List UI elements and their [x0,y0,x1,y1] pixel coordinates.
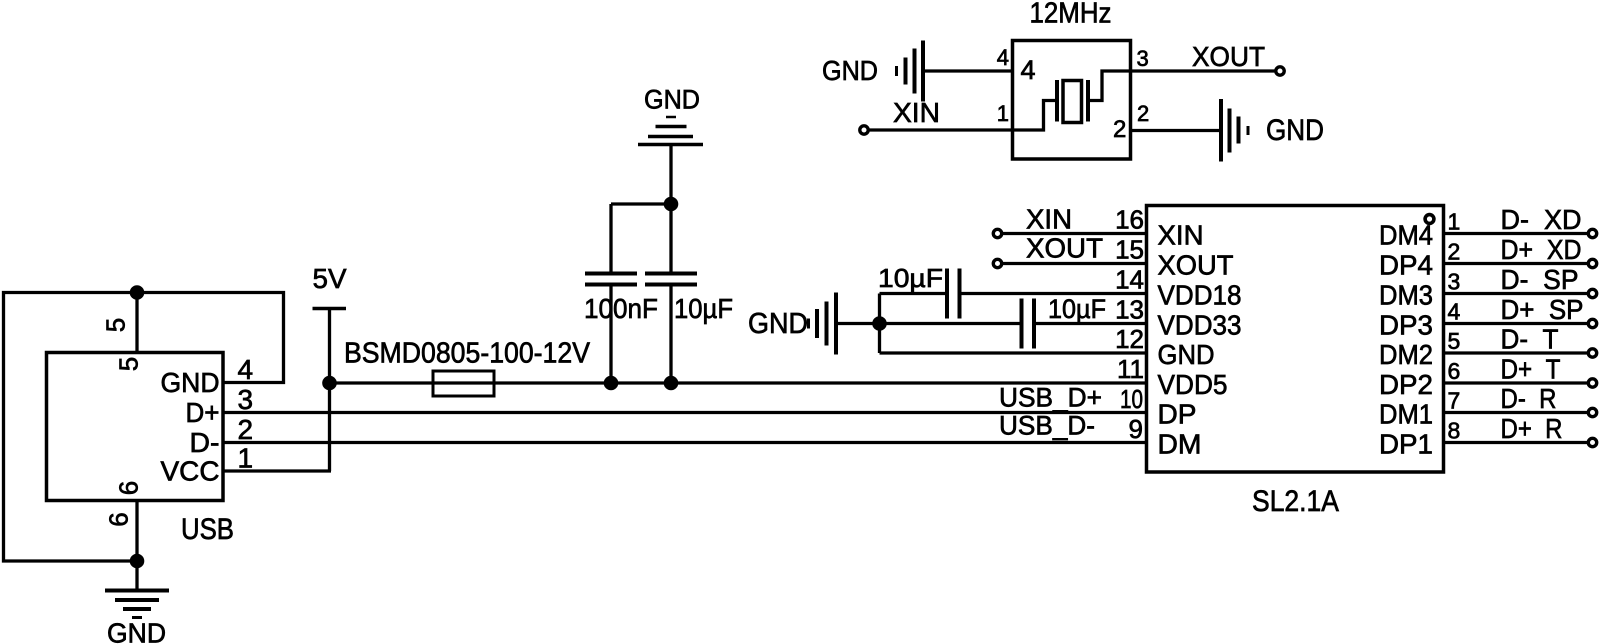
wire cap bus vertical [878,294,881,354]
svg-text:DP4: DP4 [1379,250,1433,281]
svg-text:VDD5: VDD5 [1158,369,1228,400]
svg-text:DP3: DP3 [1379,310,1433,341]
wire crystal pin2 to ground [1131,129,1220,132]
wire VCC riser [328,383,331,471]
svg-text:1: 1 [238,443,254,474]
crystal internal wire pin3 side [1090,71,1131,101]
crystal Y1 body box [1013,41,1131,160]
wire 5V stem [328,309,331,384]
wire crystal pin4 to ground [925,69,1013,72]
ground symbol below USB [105,589,169,593]
svg-text:VDD33: VDD33 [1158,310,1242,341]
fuse F1 body [433,371,494,396]
wire D-_XD net [1444,232,1589,235]
svg-text:D+_XD: D+_XD [1501,234,1582,265]
terminal D+_T [1588,379,1596,387]
svg-text:GND: GND [107,618,166,644]
svg-text:2: 2 [1448,239,1461,265]
terminal D-_XD [1588,229,1596,237]
svg-text:XOUT: XOUT [1158,250,1234,281]
terminal D-_R [1588,408,1596,416]
terminal D+_SP [1588,319,1596,327]
terminal XOUT (IC pin15) [993,259,1001,267]
IC U1 body [1147,206,1444,473]
crystal right plate [1086,80,1090,122]
wire D+_XD net [1444,262,1589,265]
svg-text:10: 10 [1120,384,1143,414]
svg-text:7: 7 [1448,388,1461,414]
svg-text:USB: USB [181,513,234,546]
junction pin5 / top rail [130,285,145,300]
svg-text:GND: GND [1266,114,1324,147]
wire pin6 down [135,501,138,562]
svg-text:DM: DM [1158,429,1202,460]
svg-text:XIN: XIN [893,97,940,128]
svg-text:D+_R: D+_R [1501,413,1563,444]
junction 5V / VCC / VDD5 [322,376,337,391]
svg-text:2: 2 [1137,101,1149,126]
svg-text:VDD18: VDD18 [1158,280,1242,311]
wire D-_T net [1444,351,1589,354]
svg-text:10µF: 10µF [878,263,943,293]
svg-text:1: 1 [997,101,1009,126]
svg-text:DM2: DM2 [1379,339,1433,370]
crystal internal wire pin1 side [1013,101,1056,131]
wire VCC (pin1 to 5V riser) [223,469,331,472]
svg-text:DM4: DM4 [1379,220,1433,251]
capacitor C2 lead top [669,204,672,272]
svg-text:5: 5 [101,318,131,332]
svg-text:4: 4 [238,354,254,385]
wire GND pin12 [880,351,1147,354]
junction cap branch [664,197,679,212]
svg-text:1: 1 [1448,209,1461,235]
svg-text:10µF: 10µF [1048,294,1106,324]
wire VDD33 right segment [1036,322,1147,325]
svg-text:5: 5 [1448,328,1461,354]
capacitor C3 10uF plates [945,269,949,319]
svg-text:2: 2 [1113,116,1126,143]
svg-text:DP: DP [1158,399,1197,430]
wire GND loop (pin4 up over to left down to bottom) [4,293,284,562]
wire crystal pin3 XOUT [1131,69,1277,72]
svg-text:GND: GND [644,85,700,115]
svg-text:8: 8 [1448,418,1461,444]
svg-text:4: 4 [1021,55,1036,85]
svg-text:2: 2 [238,414,254,445]
ground symbol top (inverted) [666,116,676,119]
svg-text:DM3: DM3 [1379,280,1433,311]
svg-text:DM1: DM1 [1379,399,1433,430]
wire USB D+ net (pin3 to IC DP) [223,411,1147,414]
svg-text:D-_SP: D-_SP [1501,264,1579,295]
svg-text:GND: GND [1158,339,1215,370]
wire VDD18 left segment [880,292,946,295]
svg-text:XOUT: XOUT [1026,233,1103,264]
svg-text:D+_SP: D+_SP [1501,294,1584,325]
capacitor C2 lead bottom [669,287,672,384]
svg-text:DP2: DP2 [1379,369,1433,400]
svg-text:BSMD0805-100-12V: BSMD0805-100-12V [344,338,591,370]
svg-text:D-: D- [190,427,220,458]
wire USB D- net (pin2 to IC DM) [223,441,1147,444]
svg-text:6: 6 [104,512,134,526]
wire D-_SP net [1444,292,1589,295]
ground symbol crystal right (rotated) [1219,99,1223,162]
junction cap bus / gnd [872,316,887,331]
svg-text:9: 9 [1129,414,1143,444]
svg-text:VCC: VCC [161,456,220,487]
wire pin5 to top rail [135,291,138,353]
wire VDD5 rail [330,381,1147,384]
IC pin1 marker circle [1425,215,1434,224]
svg-text:XIN: XIN [1158,220,1204,251]
svg-text:D+_T: D+_T [1501,354,1561,385]
svg-text:D-_T: D-_T [1501,324,1559,355]
capacitor C1 100nF plates [585,272,637,276]
svg-text:5V: 5V [313,263,347,294]
terminal XIN (IC pin16) [993,229,1001,237]
crystal left plate [1055,80,1059,122]
svg-text:D+: D+ [186,397,220,428]
svg-text:11: 11 [1117,354,1144,384]
svg-text:SL2.1A: SL2.1A [1252,485,1339,518]
svg-text:14: 14 [1115,265,1144,295]
wire D+_SP net [1444,322,1589,325]
ground symbol IC (rotated) [834,293,838,355]
svg-text:4: 4 [997,45,1009,70]
svg-text:XOUT: XOUT [1192,41,1265,72]
junction C1 / VDD5 [604,376,619,391]
wire D-_R net [1444,411,1589,414]
svg-text:3: 3 [1137,46,1149,71]
svg-text:6: 6 [1448,358,1461,384]
USB connector J1 body [47,353,224,501]
terminal D+_R [1588,438,1596,446]
svg-text:12: 12 [1115,324,1144,354]
wire to ground [135,561,138,589]
terminal D-_SP [1588,289,1596,297]
terminal XOUT (crystal) [1276,67,1284,75]
wire D+_R net [1444,441,1589,444]
wire VDD33 left segment [880,322,1021,325]
svg-text:6: 6 [114,481,144,495]
svg-text:5: 5 [114,357,144,371]
wire D+_T net [1444,381,1589,384]
svg-text:XIN: XIN [1026,204,1072,235]
svg-text:3: 3 [1448,269,1461,295]
capacitor C2 10uF plates [645,272,697,276]
wire branch to C1 [611,202,671,205]
wire XOUT net [1002,262,1147,265]
svg-text:USB_D+: USB_D+ [999,383,1102,413]
junction C2 / VDD5 [664,376,679,391]
capacitor C4 10uF plates [1020,299,1024,349]
wire XIN net [1002,232,1147,235]
terminal XIN (crystal) [860,126,868,134]
wire gnd to bus [838,322,880,325]
capacitor C1 lead top [609,204,612,272]
svg-text:DP1: DP1 [1379,429,1433,460]
wire XIN to crystal pin1 [868,128,1013,131]
terminal D-_T [1588,349,1596,357]
wire top gnd stem [669,146,672,204]
svg-text:16: 16 [1115,205,1144,235]
svg-text:4: 4 [1448,299,1461,325]
svg-text:GND: GND [822,55,878,86]
svg-text:USB_D-: USB_D- [999,411,1095,441]
svg-text:100nF: 100nF [584,293,658,324]
svg-text:3: 3 [238,384,254,415]
ground symbol crystal left (rotated) [921,41,925,102]
svg-text:12MHz: 12MHz [1030,0,1112,30]
svg-text:15: 15 [1115,235,1144,265]
svg-text:D-_XD: D-_XD [1501,204,1582,235]
junction pin6 / bottom rail [130,554,145,569]
terminal D+_XD [1588,259,1596,267]
wire VDD18 right segment [962,292,1147,295]
svg-text:13: 13 [1115,295,1144,325]
crystal element body [1063,81,1082,123]
power symbol 5V bar [313,307,347,310]
capacitor C1 lead bottom [609,287,612,384]
svg-text:GND: GND [748,308,808,340]
svg-text:10µF: 10µF [674,293,733,324]
svg-text:D-_R: D-_R [1501,383,1557,414]
svg-text:GND: GND [161,367,220,398]
